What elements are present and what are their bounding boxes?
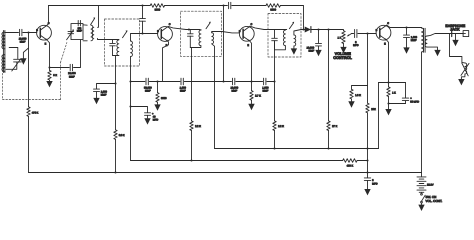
capacitor C3 top rail	[229, 2, 231, 8]
capacitor C8 1,000 MMF	[94, 89, 108, 98]
battery B1 22.5V	[417, 173, 434, 194]
transistor Q3 2nd IF amp	[239, 23, 254, 47]
variable capacitor C6 tuning gang osc section	[67, 29, 74, 39]
wire: bus continues	[184, 81, 231, 83]
wire: emitter network top	[379, 82, 406, 84]
capacitor C5 360 MMF osc	[77, 20, 83, 32]
resistor R8 2.2 K	[273, 121, 284, 131]
oscillator tank box	[71, 24, 83, 40]
wire: IF3 primary bottom down	[274, 41, 276, 121]
svg-text:MMF: MMF	[263, 90, 269, 93]
variable capacitor C2 tuning gang antenna section	[12, 59, 22, 71]
node top rail junction	[222, 4, 224, 6]
node R5 bottom	[114, 171, 116, 173]
capacitor C7 IF1 tuning	[110, 40, 116, 56]
capacitor C16 50 MFD electrolytic	[402, 83, 419, 104]
svg-text:E: E	[247, 44, 249, 47]
ground jack sleeve	[452, 34, 458, 47]
wire: wiper to coupling cap	[352, 33, 354, 35]
node IF2 primary top	[188, 28, 190, 30]
wire: IF2 primary bottom down	[191, 48, 193, 121]
wire: Q1 emitter down	[48, 41, 50, 68]
resistor R6 2.2 K	[190, 121, 201, 131]
switch SW1 on volume control	[421, 193, 443, 204]
wire: bus continues	[149, 81, 180, 83]
wire: bus end	[267, 81, 275, 83]
svg-text:2.2 K: 2.2 K	[195, 125, 201, 128]
ground C10	[144, 118, 150, 124]
svg-text:22.5V: 22.5V	[427, 184, 434, 187]
svg-text:20K: 20K	[371, 108, 376, 111]
wire: R1 to bottom rail	[28, 116, 30, 172]
wire: top rail continues	[165, 5, 228, 7]
wire: IF3 secondary to diode	[294, 30, 305, 35]
ground transformer secondary	[427, 47, 441, 56]
IF3 windings	[275, 22, 296, 50]
svg-text:5600: 5600	[270, 8, 276, 11]
wire: bypass bus	[131, 81, 145, 83]
output transformer T5	[422, 28, 428, 53]
wire: osc secondary bottom to IF1	[98, 38, 119, 39]
svg-text:+: +	[410, 97, 412, 100]
wire: R9 to rail	[328, 131, 330, 149]
wire: Q4 collector to output transformer	[387, 25, 422, 27]
node bus left	[129, 80, 131, 82]
node ground stub	[387, 102, 389, 104]
svg-text:C: C	[387, 22, 389, 25]
svg-text:1.5 K: 1.5 K	[355, 94, 361, 97]
rail C battery minus	[29, 172, 422, 174]
capacitor C12 IF3 tuning	[272, 30, 278, 50]
ground battery return	[418, 205, 424, 211]
ground C15	[403, 47, 409, 53]
rail A emitter return	[215, 148, 379, 150]
capacitor C4 10,000 MMF osc feedback	[68, 64, 76, 78]
node Q3 emitter junction	[250, 80, 252, 82]
svg-text:MMF: MMF	[77, 30, 83, 33]
IF transformer T3 shield box dashed	[181, 11, 222, 56]
wire: bus continues	[236, 81, 263, 83]
wire: to electrolytic	[131, 107, 148, 113]
node collector cap junction	[405, 26, 407, 28]
resistor R11 1.5 K	[350, 89, 361, 101]
svg-text:MFD: MFD	[353, 44, 359, 47]
wire: bias line down	[28, 33, 30, 107]
IF transformer T2 shield box dashed	[105, 19, 140, 66]
resistor R5 3.3 K	[114, 130, 125, 140]
node rail A link	[366, 147, 368, 149]
wire: top rail continues	[232, 5, 266, 7]
wire: Q4 emitter down	[387, 41, 389, 83]
capacitor C18 1,000 MMF	[180, 78, 187, 92]
antenna coil L1 ferrite loopstick	[2, 31, 5, 73]
transistor Q1 converter	[36, 22, 51, 46]
capacitor C9 neutralizing	[140, 6, 146, 34]
svg-text:E: E	[45, 43, 47, 46]
wire: C1 to Q1 base	[23, 32, 37, 34]
wire: Q2 collector to IF2	[168, 26, 200, 29]
IF transformer T4 shield box dashed	[268, 14, 301, 58]
ground antenna circuit	[20, 48, 28, 65]
svg-text:MFD: MFD	[153, 119, 159, 122]
wire: emitter to feedback cap	[50, 67, 70, 69]
svg-text:MMF: MMF	[411, 39, 417, 42]
capacitor C13 10,000 MMF detector filter	[307, 30, 322, 53]
node 40MFD junction	[129, 105, 131, 107]
svg-text:E: E	[384, 43, 386, 46]
svg-text:2.2 K: 2.2 K	[278, 125, 284, 128]
svg-text:MMF: MMF	[231, 90, 237, 93]
wire: osc secondary top riser	[98, 6, 99, 28]
svg-text:3.3 K: 3.3 K	[119, 134, 125, 137]
node base bias junction	[27, 31, 29, 33]
resistor R14 5600	[156, 82, 167, 105]
wire: Q2 emitter down	[163, 42, 169, 82]
ground C21	[364, 189, 370, 195]
node filter cap junction	[317, 28, 319, 30]
wire: R8 to rail	[274, 131, 276, 149]
wire: primary bottom to rail	[421, 52, 423, 173]
svg-text:MMF: MMF	[69, 75, 75, 78]
svg-text:CONTROL: CONTROL	[333, 56, 352, 60]
earphone jack J1	[445, 24, 468, 36]
wire: to R11	[352, 86, 368, 90]
wire: cap to oscillator box	[74, 40, 81, 68]
wire: R12 to rails	[367, 113, 369, 173]
wire: AGC riser	[223, 6, 225, 82]
wire: R5 to bottom rail	[115, 139, 117, 172]
svg-text:MMF: MMF	[180, 90, 186, 93]
IF1 windings	[113, 30, 133, 56]
diode D1 detector	[305, 27, 311, 33]
transistor Q2 1st IF amp	[157, 23, 172, 47]
IF2 windings	[190, 22, 213, 48]
rail B AGC return	[131, 160, 343, 162]
node emitter network top	[387, 81, 389, 83]
resistor R2 5600 top rail	[150, 4, 164, 12]
wire: secondary top to jack	[427, 34, 451, 37]
wire: coil tap	[9, 48, 18, 59]
wire: IF1 secondary top to Q2 base	[131, 34, 158, 42]
capacitor C17 50,000 MMF	[144, 78, 152, 92]
svg-text:JACK: JACK	[450, 27, 460, 31]
node detector junction	[302, 28, 304, 30]
node bus end	[273, 80, 275, 82]
resistor R9 27 K	[327, 121, 338, 131]
node bias junction	[366, 32, 368, 34]
svg-text:5600: 5600	[161, 97, 167, 100]
wire: top supply rail	[49, 5, 151, 7]
wire: emitter network bottom	[389, 103, 406, 105]
wire: top rail to detector	[280, 6, 303, 30]
node riser junction	[222, 80, 224, 82]
wire: coil top to C1	[5, 32, 19, 34]
node 5600 junction	[156, 80, 158, 82]
resistor R4 6 K	[48, 68, 58, 82]
ground Q1 emitter	[46, 81, 52, 87]
wire: AGC return down	[328, 30, 330, 121]
node R8 bottom	[273, 147, 275, 149]
capacitor C15 1,000 MMF	[404, 28, 418, 48]
node R6 bottom	[190, 159, 192, 161]
rail B end	[357, 160, 367, 162]
wire: R6 to rail	[191, 131, 193, 161]
capacitor C21 5 MFD electrolytic	[364, 173, 377, 190]
resistor R1 470 K	[27, 107, 39, 117]
resistor R3 5600 top rail right	[266, 4, 280, 12]
wire: Q3 emitter down	[250, 42, 251, 82]
mechanical gang dashed link	[3, 43, 67, 100]
node bypass junction	[114, 82, 116, 84]
wire: cap to Q4 base	[358, 33, 376, 35]
earphone magnetic	[461, 62, 469, 79]
resistor R13 1 K	[387, 83, 396, 104]
ground C8	[93, 98, 99, 104]
svg-text:MMF: MMF	[145, 90, 151, 93]
resistor R12 20K	[366, 86, 376, 113]
wire: bias divider down	[367, 34, 369, 86]
svg-text:400 K: 400 K	[347, 164, 354, 167]
wire: C2 bottom to coil bottom	[6, 62, 17, 69]
resistor R7 2.7 K	[250, 82, 261, 104]
svg-text:VOL. CONT.: VOL. CONT.	[426, 199, 443, 203]
svg-text:MFD: MFD	[372, 183, 378, 186]
node emitter junction	[48, 66, 50, 68]
svg-text:470 K: 470 K	[32, 112, 39, 115]
svg-text:C: C	[251, 23, 253, 26]
capacitor C19 10,000 MMF	[230, 78, 238, 92]
capacitor C10 40 MFD electrolytic	[145, 112, 159, 121]
ground R11	[348, 101, 354, 107]
node R9 bottom	[327, 147, 329, 149]
resistor R15 400 K	[343, 159, 357, 168]
wire: Q3 collector to IF3	[250, 26, 287, 29]
oscillator coil T1	[83, 17, 95, 40]
ground R14	[154, 104, 160, 110]
svg-text:1 K: 1 K	[392, 91, 396, 94]
capacitor C11 IF2 tuning	[188, 30, 194, 48]
potentiometer R10 1 K volume control	[338, 30, 352, 47]
ground volume control	[340, 47, 346, 53]
wire: jack tip down to earphone	[450, 34, 462, 63]
svg-text:5600: 5600	[155, 8, 161, 11]
svg-text:C: C	[169, 23, 171, 26]
ground R7	[248, 104, 254, 110]
wire: IF2 secondary bottom to rail	[212, 44, 215, 149]
node neutralizing junction	[141, 32, 143, 34]
wire: Q1 collector riser	[47, 6, 48, 26]
svg-text:MMF: MMF	[308, 50, 314, 53]
ground earphone	[458, 79, 464, 85]
svg-text:MMF: MMF	[101, 94, 107, 97]
svg-text:MMF: MMF	[20, 41, 26, 44]
wire: IF1 secondary bottom down	[130, 57, 132, 161]
ground Q4 emitter	[385, 104, 391, 116]
svg-text:1 K: 1 K	[338, 36, 342, 39]
wire: diode to volume control	[311, 29, 343, 31]
transistor Q4 audio amp	[376, 22, 391, 46]
wire: IF1 primary bottom down	[115, 56, 117, 130]
node rail B junction	[366, 159, 368, 161]
node AGC junction	[327, 28, 329, 30]
wire: to bypass cap	[97, 84, 116, 89]
capacitor C1 10,000 MMF	[19, 29, 27, 43]
svg-text:2.7 K: 2.7 K	[255, 95, 261, 98]
ground IF3 secondary	[291, 46, 297, 55]
node neutralizing riser junction	[141, 4, 143, 6]
capacitor C20 1,000 MMF	[262, 78, 269, 92]
ground C13	[315, 50, 321, 56]
wire: network to rail A	[368, 83, 379, 149]
wire: IF2 secondary top to Q3 base	[212, 32, 240, 33]
svg-text:50 MFD: 50 MFD	[410, 101, 419, 104]
svg-text:6 K: 6 K	[53, 74, 57, 77]
capacitor C14 5 MFD electrolytic	[353, 30, 359, 48]
svg-text:27 K: 27 K	[332, 125, 337, 128]
node rail C junction	[366, 171, 368, 173]
